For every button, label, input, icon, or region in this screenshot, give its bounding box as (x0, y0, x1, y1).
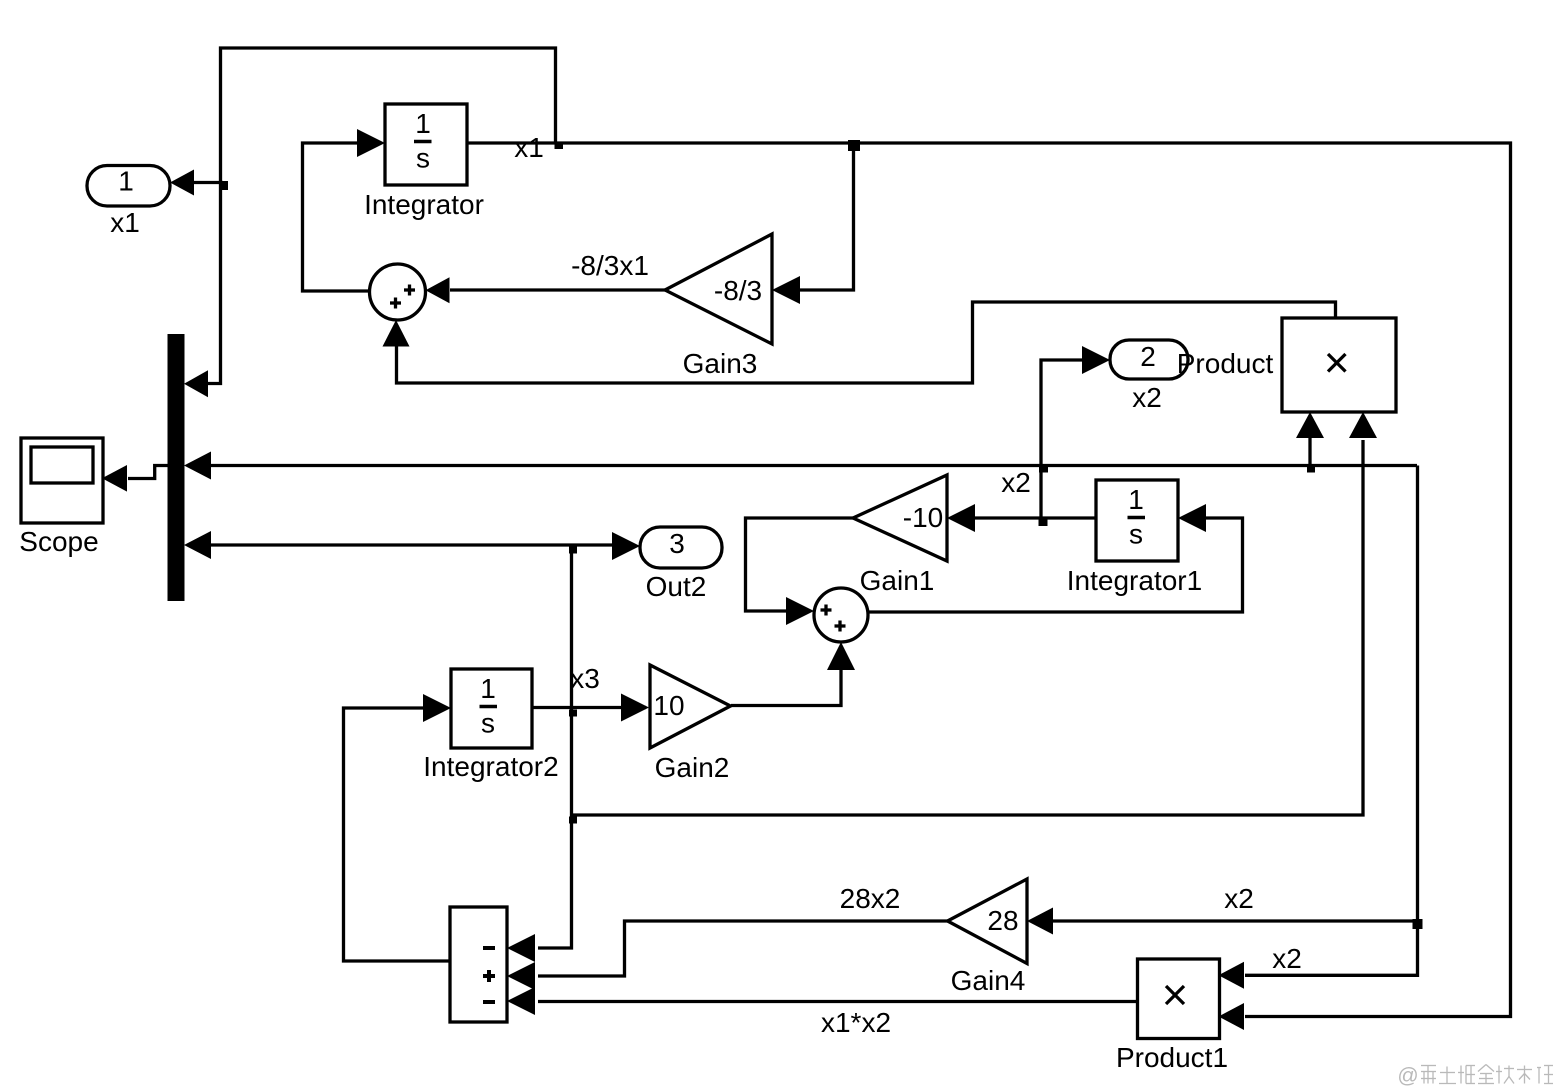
svg-text:s: s (1129, 519, 1143, 550)
svg-text:1: 1 (480, 673, 496, 704)
svg-text:Gain2: Gain2 (655, 752, 730, 783)
wire mux input 3 arrow (184, 531, 211, 559)
integrator U Integrator1 (1096, 480, 1178, 561)
svg-text:Integrator2: Integrator2 (423, 751, 558, 782)
wire x1 tap to Gain3 input (797, 147, 854, 290)
wire Product output to sum1 bottom input (397, 302, 1336, 383)
svg-text:28: 28 (987, 905, 1018, 936)
wire Gain2 output to sum2 bottom input (731, 666, 841, 706)
svg-text:28x2: 28x2 (840, 883, 901, 914)
node junction x1 gain3 tap (848, 140, 860, 151)
svg-text:Product: Product (1177, 348, 1274, 379)
node junction outport tap (222, 181, 228, 190)
node junction x1 top loop (555, 144, 564, 150)
scope Scope (21, 438, 103, 523)
mux Mux (168, 334, 185, 601)
wire sum2 output to Integrator1 input (868, 518, 1243, 612)
svg-text:2: 2 (1140, 341, 1156, 372)
node junction x2 bus at product input (1307, 466, 1315, 473)
svg-text:Gain4: Gain4 (951, 965, 1026, 996)
outport 1 (x1) (87, 166, 170, 207)
svg-text:x2: x2 (1132, 382, 1162, 413)
wire x2 bus right vertical to Product1 input 1 (1245, 466, 1418, 976)
svg-text:x3: x3 (570, 663, 600, 694)
sum block S3 (450, 907, 507, 1022)
wire to outport x1 (192, 181, 223, 184)
node junction x3 at integrator2 output (569, 710, 577, 717)
sum block S1 (370, 264, 426, 320)
watermark juejin community (1397, 1065, 1553, 1088)
wire feedback x1 top loop to mux (206, 48, 556, 384)
svg-text:x2: x2 (1272, 943, 1302, 974)
sum block S2 (814, 588, 868, 642)
wire Product1 output x1*x2 to sum3 minus input (538, 1000, 1138, 1003)
gain Gain3 (-8/3) (665, 234, 772, 344)
node junction x3 at product wire (569, 817, 577, 824)
node junction x3 bus (569, 547, 577, 554)
wire mux input 2 arrow (184, 452, 211, 480)
wire x2 bus long horizontal (209, 464, 1417, 467)
wire Gain3 output to sum1 (450, 288, 666, 291)
svg-text:x2: x2 (1224, 883, 1254, 914)
svg-text:-10: -10 (903, 502, 943, 533)
outport 3 (Out2) (640, 527, 722, 568)
svg-text:Scope: Scope (19, 526, 98, 557)
svg-text:Product1: Product1 (1116, 1042, 1228, 1073)
product Product1 (1138, 959, 1220, 1039)
svg-text:1: 1 (415, 108, 431, 139)
svg-text:10: 10 (653, 690, 684, 721)
svg-text:Integrator1: Integrator1 (1067, 565, 1202, 596)
wire x3 bus to mux and Out2 (209, 543, 614, 546)
svg-text:Integrator: Integrator (364, 189, 484, 220)
gain Gain2 (10) (650, 665, 731, 748)
integrator U Integrator2 (451, 669, 532, 748)
wire Integrator1 output x2 to Gain1 (972, 516, 1096, 519)
node junction x2 out tap (1039, 520, 1048, 527)
svg-text:x1: x1 (514, 132, 544, 163)
integrator U Integrator (385, 104, 467, 185)
svg-text:Out2: Out2 (646, 571, 707, 602)
svg-text:s: s (481, 708, 495, 739)
svg-text:1: 1 (1128, 484, 1144, 515)
svg-text:x1: x1 (110, 207, 140, 238)
wire mux output to Scope (128, 466, 169, 479)
svg-text:x1*x2: x1*x2 (821, 1007, 891, 1038)
wire x2 to Gain4 input (1050, 919, 1417, 922)
wire x3 to Product input 2 (573, 440, 1363, 815)
svg-text:@: @ (1397, 1065, 1418, 1088)
product Product (1282, 318, 1396, 412)
svg-text:s: s (416, 143, 430, 174)
wire Integrator output x1 to far right vertical (467, 143, 1511, 1017)
gain Gain1 (-10) (853, 475, 947, 561)
svg-text:Gain3: Gain3 (683, 348, 758, 379)
node junction x2 bus at x2 tap (1039, 466, 1048, 473)
svg-text:-8/3: -8/3 (714, 275, 762, 306)
svg-text:x2: x2 (1001, 467, 1031, 498)
wire Gain4 output to sum3 plus input (538, 921, 948, 976)
wire Integrator2 output x3 to Gain2 (532, 706, 646, 709)
gain Gain4 (28) (948, 879, 1028, 964)
wire x2 bus to Product input 1 (1308, 436, 1311, 466)
svg-text:1: 1 (118, 166, 134, 197)
wire sum3 output to Integrator2 input (344, 708, 451, 961)
wire Gain1 output to sum2 (746, 518, 854, 611)
wire x3 vertical bus to sum3 input 1 (538, 545, 572, 948)
outport 2 (x2) (1110, 340, 1188, 379)
svg-text:-8/3x1: -8/3x1 (571, 250, 649, 281)
wire x2 tap to outport 2 (1041, 360, 1085, 518)
node junction x2 to Gain4 (1413, 919, 1423, 929)
svg-text:Gain1: Gain1 (860, 565, 935, 596)
wire sum1 output to Integrator input (303, 143, 371, 291)
svg-text:3: 3 (669, 528, 685, 559)
